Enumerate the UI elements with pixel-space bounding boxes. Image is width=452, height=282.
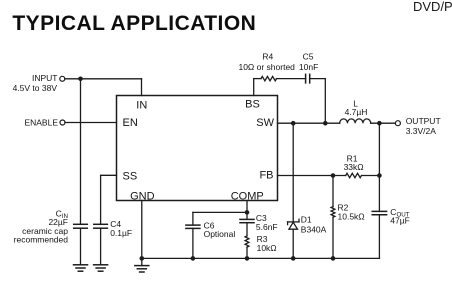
svg-text:10.5kΩ: 10.5kΩ [338, 212, 365, 222]
svg-text:0.1µF: 0.1µF [110, 228, 132, 238]
svg-text:SW: SW [256, 117, 274, 129]
svg-text:SS: SS [123, 171, 138, 183]
svg-text:INPUT: INPUT [32, 73, 58, 83]
svg-text:33kΩ: 33kΩ [344, 162, 364, 172]
svg-text:5.6nF: 5.6nF [256, 222, 278, 232]
svg-text:BS: BS [245, 98, 260, 110]
svg-text:recommended: recommended [14, 235, 69, 245]
svg-text:R4: R4 [262, 52, 273, 62]
svg-text:3.3V/2A: 3.3V/2A [406, 126, 437, 136]
svg-text:B340A: B340A [301, 225, 327, 235]
svg-text:10nF: 10nF [299, 62, 318, 72]
svg-text:OUTPUT: OUTPUT [406, 116, 441, 126]
svg-text:FB: FB [259, 170, 273, 182]
svg-text:47µF: 47µF [390, 216, 410, 226]
svg-text:D1: D1 [301, 215, 312, 225]
svg-text:ENABLE: ENABLE [24, 117, 58, 127]
svg-text:GND: GND [130, 191, 155, 203]
svg-text:4.7µH: 4.7µH [345, 107, 368, 117]
svg-text:COMP: COMP [231, 191, 264, 203]
svg-text:10Ω or shorted: 10Ω or shorted [238, 62, 295, 72]
svg-text:Optional: Optional [204, 229, 236, 239]
svg-text:IN: IN [136, 100, 147, 112]
svg-text:EN: EN [123, 117, 138, 129]
svg-text:C5: C5 [303, 52, 314, 62]
svg-text:4.5V to 38V: 4.5V to 38V [13, 83, 58, 93]
svg-text:10kΩ: 10kΩ [257, 243, 277, 253]
